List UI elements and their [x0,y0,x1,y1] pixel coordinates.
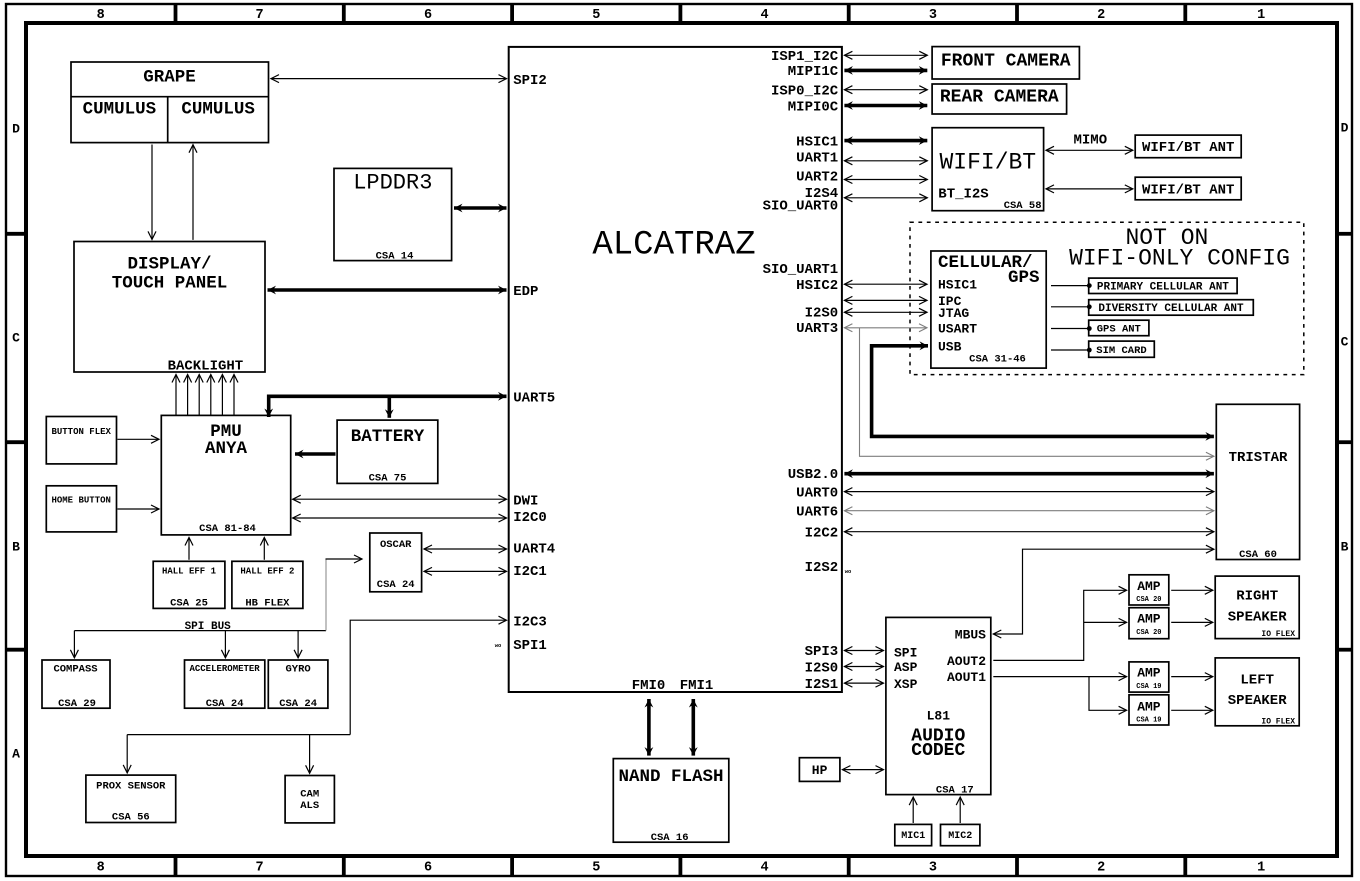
net SPI BUS to OSCAR riser gray [325,559,327,631]
block ACCELEROMETER [185,660,265,708]
svg-text:I2S1: I2S1 [805,677,839,693]
block TRISTAR [1216,404,1299,559]
svg-text:7: 7 [256,861,264,876]
wire UART2 to WIFI/BT [844,179,927,181]
svg-text:CSA 29: CSA 29 [58,698,96,710]
antenna GPS ANT [1089,320,1149,336]
block REAR CAMERA [932,84,1067,114]
svg-text:EDP: EDP [513,284,538,300]
svg-text:B: B [1341,540,1349,555]
wire I2S4/SIO_UART0 to WIFI/BT [844,197,927,199]
svg-text:6: 6 [424,861,432,876]
svg-text:UART5: UART5 [513,391,555,407]
svg-text:LEFT: LEFT [1240,672,1274,688]
wire CUMULUS to DISPLAY down [151,145,153,240]
grid row ticks right band [1337,232,1352,236]
grid row ticks left band [6,232,26,236]
block OSCAR [370,533,422,592]
grid column ticks top band [174,4,178,23]
svg-text:UART6: UART6 [796,505,838,521]
wire CELLULAR to DIVERSITY CELLULAR ANT [1051,306,1088,308]
block CAM ALS [285,776,334,823]
svg-text:PROX SENSOR: PROX SENSOR [96,780,166,792]
net I2C3 to ALCATRAZ [350,620,506,734]
svg-text:MIC2: MIC2 [948,831,972,842]
svg-text:UART1: UART1 [796,151,838,167]
svg-text:MIPI0C: MIPI0C [788,99,839,115]
svg-text:C: C [12,331,20,346]
wire MIC2 to AUDIO [959,797,961,823]
svg-text:I2S0: I2S0 [805,305,839,321]
wire HALL EFF 1 to PMU [188,538,190,560]
svg-text:UART2: UART2 [796,169,838,185]
svg-text:LPDDR3: LPDDR3 [353,171,432,196]
svg-text:CSA 17: CSA 17 [936,784,974,796]
svg-text:SIO_UART1: SIO_UART1 [763,262,839,278]
block SIM CARD [1089,341,1155,357]
svg-text:USART: USART [938,321,977,336]
svg-text:UART4: UART4 [513,542,555,558]
svg-text:SPI2: SPI2 [513,73,547,89]
net I2C3 drop to CAM ALS [309,735,311,774]
svg-text:CSA 75: CSA 75 [369,472,407,484]
svg-text:NAND FLASH: NAND FLASH [618,767,723,787]
net USB CELLULAR to TRISTAR thick [872,346,1214,437]
wire I2S0 ALCATRAZ-AUDIO [844,666,883,668]
antenna WIFI/BT ANT 1 [1135,135,1241,158]
wire BUTTON FLEX to PMU [118,438,160,440]
svg-text:SIM CARD: SIM CARD [1096,345,1146,357]
svg-text:CSA 20: CSA 20 [1136,629,1161,637]
svg-text:AOUT2: AOUT2 [947,654,986,669]
svg-text:JTAG: JTAG [938,306,969,321]
svg-text:4: 4 [761,861,769,876]
wire UART0 ALCATRAZ-TRISTAR [844,491,1214,493]
antenna PRIMARY CELLULAR ANT [1089,278,1237,293]
net UART5 branch to BATTERY [387,396,391,418]
net SPI BUS drop to GYRO [297,631,299,658]
svg-text:UART0: UART0 [796,485,838,501]
svg-text:MIMO: MIMO [1073,132,1107,148]
wire MIPI0C to REAR CAMERA thick [844,104,927,108]
svg-text:AOUT1: AOUT1 [947,670,986,685]
svg-text:SPI: SPI [894,645,917,660]
svg-text:D: D [12,122,20,137]
svg-text:2: 2 [1097,8,1105,23]
memory NAND FLASH [613,759,729,843]
wire UART6 ALCATRAZ-TRISTAR gray [844,510,1214,512]
svg-text:AMP: AMP [1137,579,1161,594]
svg-text:2: 2 [1097,861,1105,876]
wire AMP4 to LEFT SPEAKER [1171,709,1213,711]
block FRONT CAMERA [932,47,1079,79]
region NOT ON WIFI-ONLY CONFIG dashed [910,222,1304,374]
svg-text:BUTTON FLEX: BUTTON FLEX [51,427,111,437]
svg-text:I2C3: I2C3 [513,615,547,631]
amplifier AMP 1 [1129,575,1169,605]
svg-text:HSIC1: HSIC1 [796,134,838,150]
block PROX SENSOR [86,775,176,822]
svg-text:CSA 16: CSA 16 [651,832,689,844]
svg-text:UART3: UART3 [796,321,838,337]
wire HP to AUDIO [842,769,883,771]
wire HSIC2 to CELLULAR HSIC1 [844,283,927,285]
wire I2C0 PMU-ALCATRAZ [293,517,507,519]
svg-text:HP: HP [812,763,828,778]
amplifier AMP 2 [1129,608,1169,639]
junction dot PRIMARY CELLULAR ANT [1087,283,1092,288]
wire HALL EFF 2 to PMU [263,538,265,560]
svg-text:CSA 24: CSA 24 [279,698,317,710]
svg-text:SPI3: SPI3 [805,644,839,660]
wire DISPLAY to CUMULUS up [192,145,194,240]
svg-text:TRISTAR: TRISTAR [1229,450,1288,466]
wire ISP1_I2C to FRONT CAMERA [844,54,927,56]
svg-text:7: 7 [256,8,264,23]
svg-text:OSCAR: OSCAR [380,539,412,551]
wire AMP3 to LEFT SPEAKER [1171,676,1213,678]
wire AMP1 to RIGHT SPEAKER [1171,589,1213,591]
svg-text:WIFI/BT ANT: WIFI/BT ANT [1142,182,1234,198]
svg-text:CSA 31-46: CSA 31-46 [969,354,1026,366]
antenna DIVERSITY CELLULAR ANT [1089,300,1254,316]
svg-text:HOME BUTTON: HOME BUTTON [51,496,110,506]
net AOUT2 to AMP1 [993,590,1126,660]
block HP [799,758,840,782]
wire UART1 to WIFI/BT [844,160,927,162]
svg-text:WIFI/BT: WIFI/BT [939,150,1036,176]
net SPI BUS rail [74,630,326,632]
svg-text:WIFI/BT ANT: WIFI/BT ANT [1142,140,1234,156]
amplifier AMP 3 [1129,662,1169,692]
svg-text:CSA 81-84: CSA 81-84 [199,523,256,535]
svg-text:BATTERY: BATTERY [351,427,425,447]
wire HOME BUTTON to PMU [118,508,160,510]
svg-text:CSA 20: CSA 20 [1136,596,1161,604]
microphone MIC1 [895,824,932,845]
svg-text:CSA 24: CSA 24 [206,698,244,710]
svg-text:1: 1 [1257,8,1265,23]
svg-text:CSA 14: CSA 14 [376,250,414,262]
svg-text:COMPASS: COMPASS [53,664,97,676]
svg-text:4: 4 [761,8,769,23]
grid column ticks bottom band [174,856,178,876]
net I2C3 rail to PROX/CAM [127,734,350,736]
svg-text:WIFI-ONLY CONFIG: WIFI-ONLY CONFIG [1069,245,1290,271]
svg-text:CSA 56: CSA 56 [112,812,150,824]
svg-text:B: B [12,540,20,555]
svg-text:CSA 25: CSA 25 [170,598,208,610]
svg-text:REAR CAMERA: REAR CAMERA [940,88,1059,108]
net I2C3 drop to PROX SENSOR [126,735,128,773]
svg-text:ANYA: ANYA [205,439,248,459]
svg-text:USB: USB [938,339,962,354]
net MBUS AUDIO-TRISTAR [993,549,1214,634]
block COMPASS [42,660,110,708]
svg-text:ISP1_I2C: ISP1_I2C [771,49,839,65]
svg-text:GPS: GPS [1008,268,1040,288]
svg-text:FMI0: FMI0 [632,678,666,694]
svg-text:HALL EFF 1: HALL EFF 1 [162,567,217,577]
wire IPC to CELLULAR [844,299,927,301]
svg-text:SPEAKER: SPEAKER [1228,609,1287,625]
wire I2C1 OSCAR-ALCATRAZ [424,570,507,572]
GRAPE cell divider horizontal [71,96,269,98]
wire MIPI1C to FRONT CAMERA thick [844,69,927,73]
svg-text:CAM: CAM [300,789,319,801]
wire UART4 OSCAR-ALCATRAZ [424,548,507,550]
svg-text:IO FLEX: IO FLEX [1261,717,1295,726]
svg-text:TOUCH PANEL: TOUCH PANEL [112,273,228,293]
svg-text:MIPI1C: MIPI1C [788,64,839,80]
svg-text:ALS: ALS [300,800,319,812]
svg-text:BACKLIGHT: BACKLIGHT [168,359,244,375]
wire CELLULAR to GPS ANT [1051,328,1088,330]
svg-text:HSIC1: HSIC1 [938,278,977,293]
svg-text:DISPLAY/: DISPLAY/ [127,255,211,275]
svg-text:MIC1: MIC1 [901,831,925,842]
svg-text:SPI1: SPI1 [513,638,547,654]
svg-text:I2C1: I2C1 [513,564,547,580]
block GYRO [268,660,328,708]
wire EDP DISPLAY-ALCATRAZ thick [268,288,507,292]
svg-text:I2S0: I2S0 [805,660,839,676]
svg-text:ASP: ASP [894,660,918,675]
net SPI BUS drop to COMPASS [73,631,75,658]
svg-text:5: 5 [592,8,600,23]
microphone MIC2 [941,824,980,845]
svg-text:HALL EFF 2: HALL EFF 2 [240,567,294,577]
svg-text:RIGHT: RIGHT [1236,589,1278,605]
svg-text:8: 8 [97,8,105,23]
block DISPLAY/TOUCH PANEL [74,242,265,373]
svg-text:DIVERSITY CELLULAR ANT: DIVERSITY CELLULAR ANT [1098,303,1244,315]
svg-text:CSA 19: CSA 19 [1136,716,1161,724]
codec AUDIO CODEC L81 [886,617,991,794]
net SPI BUS to OSCAR arrow [326,558,363,560]
svg-text:CSA 24: CSA 24 [377,579,415,591]
block HOME BUTTON [46,486,116,532]
svg-text:MBUS: MBUS [955,628,986,643]
wire DWI PMU-ALCATRAZ [293,498,507,500]
svg-text:A: A [12,747,20,762]
wire MIC1 to AUDIO [912,797,914,823]
CUMULUS cell divider vertical [167,97,169,143]
svg-text:XSP: XSP [894,677,918,692]
svg-text:HB FLEX: HB FLEX [245,598,290,610]
svg-text:CSA 60: CSA 60 [1239,549,1277,561]
svg-text:SIO_UART0: SIO_UART0 [763,199,839,215]
svg-text:IO FLEX: IO FLEX [1261,630,1295,639]
wire HSIC1 to WIFI/BT thick [844,139,927,143]
wire WIFI/BT to ANT2 [1046,188,1133,190]
net SPI BUS drop to ACCELEROMETER [224,631,226,658]
wire backlight arrows PMU to DISPLAY [175,375,177,416]
svg-text:wo: wo [845,568,852,575]
block HALL EFF 2 [232,561,303,608]
net UART5 thick PMU/BATTERY/ALCATRAZ [269,396,507,417]
wire I2C2 ALCATRAZ-TRISTAR [844,531,1214,533]
net USART branch to TRISTAR gray [860,328,1214,457]
svg-text:6: 6 [424,8,432,23]
wire AMP2 to RIGHT SPEAKER [1171,621,1213,623]
block HALL EFF 1 [153,561,225,608]
block WIFI/BT [932,128,1044,211]
junction dot SIM CARD [1087,348,1092,353]
block CELLULAR/GPS [931,251,1046,368]
svg-text:L81: L81 [927,708,951,723]
wire FMI1 to NAND thick [691,699,695,756]
svg-text:C: C [1341,335,1349,350]
svg-text:CUMULUS: CUMULUS [83,99,157,119]
wire USB2.0 ALCATRAZ-TRISTAR thick [844,472,1214,476]
junction dot GPS ANT [1087,326,1092,331]
svg-text:GPS ANT: GPS ANT [1097,324,1141,336]
svg-text:3: 3 [929,8,937,23]
svg-text:CSA 19: CSA 19 [1136,683,1161,691]
svg-text:CUMULUS: CUMULUS [181,99,255,119]
SoC U1 ALCATRAZ [509,47,842,692]
amplifier AMP 4 [1129,695,1169,725]
svg-text:I2C2: I2C2 [805,525,839,541]
svg-text:ACCELEROMETER: ACCELEROMETER [189,664,260,674]
svg-text:GYRO: GYRO [285,664,310,676]
svg-text:CODEC: CODEC [911,741,965,761]
wire I2S0/JTAG to CELLULAR [844,311,927,313]
wire I2S1 ALCATRAZ-AUDIO [844,682,883,684]
block BUTTON FLEX [46,417,116,464]
svg-text:FMI1: FMI1 [680,678,714,694]
svg-text:D: D [1341,121,1349,136]
svg-text:BT_I2S: BT_I2S [938,187,988,203]
svg-text:AMP: AMP [1137,699,1161,714]
speaker RIGHT SPEAKER [1215,576,1299,639]
wire UART3/USART to CELLULAR gray [844,327,927,329]
wire CELLULAR to SIM CARD [1051,349,1088,351]
junction dot DIVERSITY CELLULAR ANT [1087,304,1092,309]
svg-text:1: 1 [1257,861,1265,876]
svg-text:CSA 58: CSA 58 [1004,200,1042,212]
svg-text:AMP: AMP [1137,666,1161,681]
wire SPI3 ALCATRAZ-AUDIO [844,650,883,652]
svg-text:3: 3 [929,861,937,876]
wire CELLULAR to PRIMARY CELLULAR ANT [1051,285,1088,287]
svg-text:I2S2: I2S2 [805,560,839,576]
svg-text:PRIMARY CELLULAR ANT: PRIMARY CELLULAR ANT [1097,282,1229,294]
svg-text:DWI: DWI [513,494,538,510]
wire FMI0 to NAND thick [647,699,651,756]
net AOUT2 branch to AMP2 [1084,621,1127,623]
svg-text:FRONT CAMERA: FRONT CAMERA [941,52,1071,72]
block GRAPE / CUMULUS [71,62,269,143]
wire MIMO WIFI/BT to ANT1 [1046,149,1133,151]
svg-text:HSIC2: HSIC2 [796,278,838,294]
svg-text:AMP: AMP [1137,612,1161,627]
wire ISP0_I2C to REAR CAMERA [844,89,927,91]
wire SPI2 GRAPE-ALCATRAZ [271,78,507,80]
memory LPDDR3 [334,168,452,260]
speaker LEFT SPEAKER [1215,658,1299,726]
svg-text:I2C0: I2C0 [513,510,547,526]
wire LPDDR3-ALCATRAZ thick [454,206,507,210]
svg-text:ALCATRAZ: ALCATRAZ [592,227,755,265]
PMU ANYA [161,415,290,535]
net AOUT1 branch to AMP4 [1089,677,1127,711]
svg-text:USB2.0: USB2.0 [788,467,838,483]
net AOUT1 to AMP3 [993,676,1126,678]
svg-text:5: 5 [592,861,600,876]
antenna WIFI/BT ANT 2 [1135,177,1241,200]
svg-text:8: 8 [97,861,105,876]
block BATTERY [337,420,438,483]
svg-text:wo: wo [495,642,502,649]
svg-text:ISP0_I2C: ISP0_I2C [771,84,839,100]
svg-text:SPEAKER: SPEAKER [1228,693,1287,709]
wire BATTERY to PMU thick [295,452,336,456]
svg-text:SPI BUS: SPI BUS [185,621,232,633]
svg-text:GRAPE: GRAPE [143,68,196,88]
